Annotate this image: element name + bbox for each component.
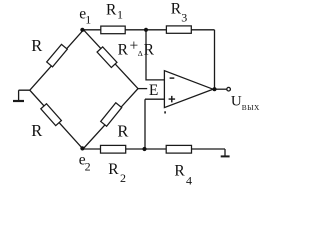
svg-text:R: R bbox=[171, 0, 182, 17]
svg-text:U: U bbox=[231, 94, 242, 110]
svg-text:4: 4 bbox=[186, 173, 192, 187]
svg-text:R: R bbox=[144, 42, 155, 59]
svg-text:R: R bbox=[106, 2, 117, 19]
svg-text:Δ: Δ bbox=[138, 49, 143, 58]
svg-text:R: R bbox=[31, 36, 42, 55]
svg-text:ВЫХ: ВЫХ bbox=[242, 103, 260, 112]
svg-text:3: 3 bbox=[181, 10, 187, 24]
svg-text:1: 1 bbox=[117, 7, 123, 21]
svg-text:R: R bbox=[108, 161, 119, 178]
svg-text:R: R bbox=[31, 121, 42, 140]
svg-text:R: R bbox=[118, 42, 129, 59]
svg-text:2: 2 bbox=[120, 171, 126, 185]
svg-text:2: 2 bbox=[85, 159, 91, 173]
svg-text:E: E bbox=[149, 82, 158, 99]
svg-text:R: R bbox=[117, 121, 128, 140]
svg-text:R: R bbox=[174, 162, 185, 179]
svg-text:1: 1 bbox=[85, 12, 91, 26]
